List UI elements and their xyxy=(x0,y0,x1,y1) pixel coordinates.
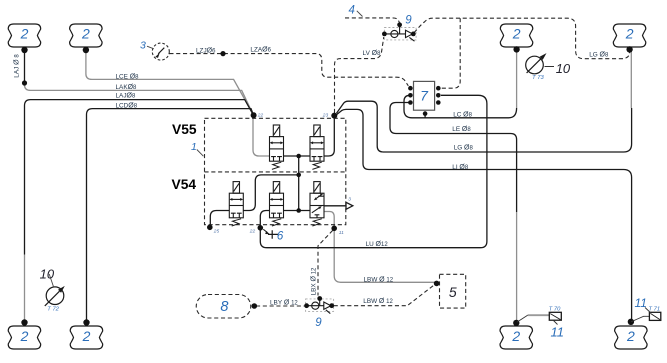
svg-text:T 71: T 71 xyxy=(649,306,661,312)
svg-text:LAKØ8: LAKØ8 xyxy=(116,84,138,91)
wire BL1 lower gray xyxy=(24,255,26,322)
wire TR1 drop (LC upper) xyxy=(516,51,518,108)
wire gray bar of sensor 11 at BR1 xyxy=(528,314,549,316)
svg-text:2: 2 xyxy=(20,328,29,344)
svg-text:T 72: T 72 xyxy=(47,307,59,313)
svg-text:LU Ø12: LU Ø12 xyxy=(366,241,389,248)
wire junction 22 to valve V55-1 left port xyxy=(253,118,270,156)
svg-text:25: 25 xyxy=(213,228,220,234)
svg-text:LE Ø8: LE Ø8 xyxy=(452,126,471,133)
svg-text:V54: V54 xyxy=(172,177,197,192)
svg-text:LAJ Ø 8: LAJ Ø 8 xyxy=(13,54,20,78)
svg-text:9: 9 xyxy=(315,317,322,329)
svg-text:LG Ø8: LG Ø8 xyxy=(589,51,609,58)
pipe 4 stub to component 9 top port xyxy=(345,18,400,23)
svg-text:8: 8 xyxy=(220,299,228,315)
component 1 leader xyxy=(197,150,204,157)
connector 2 BR2 xyxy=(615,326,648,349)
svg-text:LZJØ6: LZJØ6 xyxy=(196,47,216,54)
valve V54-B xyxy=(270,182,284,226)
wire LE from component 7 to BR1 xyxy=(390,103,517,213)
wire TR2 drop (LG upper) xyxy=(630,52,632,109)
component 10 top right (gauge T73) xyxy=(526,56,544,74)
wire LCE from connector TL2 xyxy=(86,51,253,115)
svg-text:LBX Ø 12: LBX Ø 12 xyxy=(311,267,318,295)
wire LC from TR1 to component 7 xyxy=(404,95,517,118)
svg-text:LAJØ8: LAJØ8 xyxy=(116,93,136,100)
node V54-A tee xyxy=(296,173,301,178)
svg-text:1: 1 xyxy=(191,141,197,153)
component 7 port dots xyxy=(408,86,441,116)
pipe LBY from component 8 to component 9 bottom xyxy=(256,305,305,307)
wire V55 valve2 to junction 23 xyxy=(324,118,334,156)
wire V55 valve1-valve2 xyxy=(284,155,311,157)
svg-text:3: 3 xyxy=(140,40,146,52)
valve block dashed box V55 xyxy=(205,118,346,224)
svg-text:2: 2 xyxy=(625,26,634,42)
valve V55-2 xyxy=(310,125,324,169)
svg-text:2: 2 xyxy=(511,328,520,344)
valve V54-A xyxy=(229,182,243,226)
svg-text:23: 23 xyxy=(322,113,329,119)
component 9 top (drain valve) xyxy=(384,28,416,40)
svg-text:6: 6 xyxy=(277,231,284,243)
wire V54-A right port run xyxy=(243,175,298,211)
node LBY at component 8 xyxy=(252,303,258,309)
svg-text:LCDØ8: LCDØ8 xyxy=(116,103,138,110)
svg-text:22: 22 xyxy=(257,113,264,119)
valve block divider V54 xyxy=(205,171,346,173)
component 3 arrow xyxy=(158,48,164,54)
wire V54-A left port to port 25 xyxy=(210,211,229,228)
svg-text:9: 9 xyxy=(405,14,412,26)
svg-text:5: 5 xyxy=(449,284,457,300)
connector 2 TR1 xyxy=(500,24,533,47)
node 22 (V55 top port) xyxy=(251,112,257,118)
wire LBW solid from port 11 to component 5 xyxy=(334,230,435,282)
svg-text:LZAØ6: LZAØ6 xyxy=(250,47,271,54)
wire V54-B left port to port 22 xyxy=(260,211,269,228)
svg-text:2: 2 xyxy=(82,328,91,344)
node V54-B tee xyxy=(296,208,301,213)
wire V54-B to V54-C xyxy=(284,210,311,212)
connector 2 TL2 xyxy=(70,24,103,47)
svg-text:LCE Ø8: LCE Ø8 xyxy=(116,74,140,81)
wire stub component 7 bottom port xyxy=(424,114,426,118)
svg-text:LBY Ø 12: LBY Ø 12 xyxy=(270,299,298,306)
node port 25 xyxy=(207,225,213,231)
svg-text:LG Ø8: LG Ø8 xyxy=(454,144,474,151)
component 6 cross xyxy=(268,230,278,239)
wire V54-C arrow to port 3 xyxy=(324,205,346,207)
svg-text:LV Ø8: LV Ø8 xyxy=(363,50,382,57)
svg-text:7: 7 xyxy=(420,88,429,104)
node LAK branch xyxy=(22,80,27,85)
node LZJ/LZA union xyxy=(220,51,225,56)
svg-text:11: 11 xyxy=(339,230,344,236)
connector 2 BR1 xyxy=(500,326,533,349)
wire LU from port 22 to component 7 xyxy=(260,95,487,247)
valve V55-1 xyxy=(270,125,284,169)
svg-text:V55: V55 xyxy=(172,122,197,137)
connector 2 BL1 xyxy=(8,326,41,349)
wire LE lower to BR1 xyxy=(516,212,518,322)
svg-text:4: 4 xyxy=(349,4,355,16)
svg-text:10: 10 xyxy=(40,266,55,281)
svg-text:11: 11 xyxy=(551,325,565,340)
wire riser V55 to V54 xyxy=(298,156,300,211)
pipe branch to component 7 top right xyxy=(441,18,460,88)
svg-text:LC Ø8: LC Ø8 xyxy=(453,111,472,118)
component 8 dashed stadium xyxy=(196,295,251,319)
pipe LBX from port 11 to component 9 bottom xyxy=(318,230,333,295)
node port 11 xyxy=(331,226,337,232)
connector 2 BL2 xyxy=(70,326,103,349)
svg-text:2: 2 xyxy=(512,26,521,42)
wire LCD from BL2 xyxy=(87,109,254,322)
svg-text:10: 10 xyxy=(556,61,571,76)
connector 2 TR2 xyxy=(613,24,646,47)
wire LG from junction 23 to TR2 xyxy=(337,101,632,152)
wire LI from junction 23 to BR2 xyxy=(337,109,632,321)
wire V54-C right port to port 11 xyxy=(324,212,334,227)
svg-text:22: 22 xyxy=(249,228,256,234)
svg-text:2: 2 xyxy=(20,26,29,42)
pipe LBW dashed from component 9 to component 5 xyxy=(334,285,435,306)
svg-text:T 73: T 73 xyxy=(532,75,544,81)
svg-text:T 70: T 70 xyxy=(549,306,561,312)
node valve V55 junction xyxy=(296,154,301,159)
svg-text:LBW Ø 12: LBW Ø 12 xyxy=(364,276,394,283)
component 10 bottom left (gauge T72) xyxy=(45,287,64,306)
component 3 dashed circle xyxy=(152,43,169,60)
component 7 box xyxy=(414,81,435,110)
wire TL1 stub xyxy=(24,51,26,82)
svg-text:2: 2 xyxy=(81,26,90,42)
component 11 sensor at BR2 (T71) xyxy=(631,316,649,322)
component 3 leader xyxy=(147,46,154,49)
component 4 leader xyxy=(357,11,363,17)
svg-text:LBW Ø 12: LBW Ø 12 xyxy=(363,298,393,305)
wire LAJ from BL1 xyxy=(25,100,254,255)
svg-text:2: 2 xyxy=(626,328,635,344)
node LBW at component 5 xyxy=(434,281,440,287)
pipe LG dashed from component 9 to TR2 xyxy=(414,18,630,59)
wire LAK from junction A xyxy=(25,85,254,115)
svg-text:11: 11 xyxy=(635,296,647,310)
svg-text:LI Ø8: LI Ø8 xyxy=(452,164,469,171)
pipe LZJ/LZA from component 3 to component 7 xyxy=(169,54,408,86)
connector 2 TL1 xyxy=(8,24,41,47)
component 5 dashed box xyxy=(440,274,466,308)
node port 22 bottom xyxy=(258,225,264,231)
component 9 bottom (drain valve) xyxy=(306,299,334,312)
svg-text:3: 3 xyxy=(348,197,351,203)
component 11 sensor at BR1 (T70) xyxy=(517,315,528,322)
pipe LV from junction 23 to component 9 top xyxy=(335,37,384,113)
valve V54-C xyxy=(310,182,324,226)
node 23 (V55 top port) xyxy=(331,113,337,119)
